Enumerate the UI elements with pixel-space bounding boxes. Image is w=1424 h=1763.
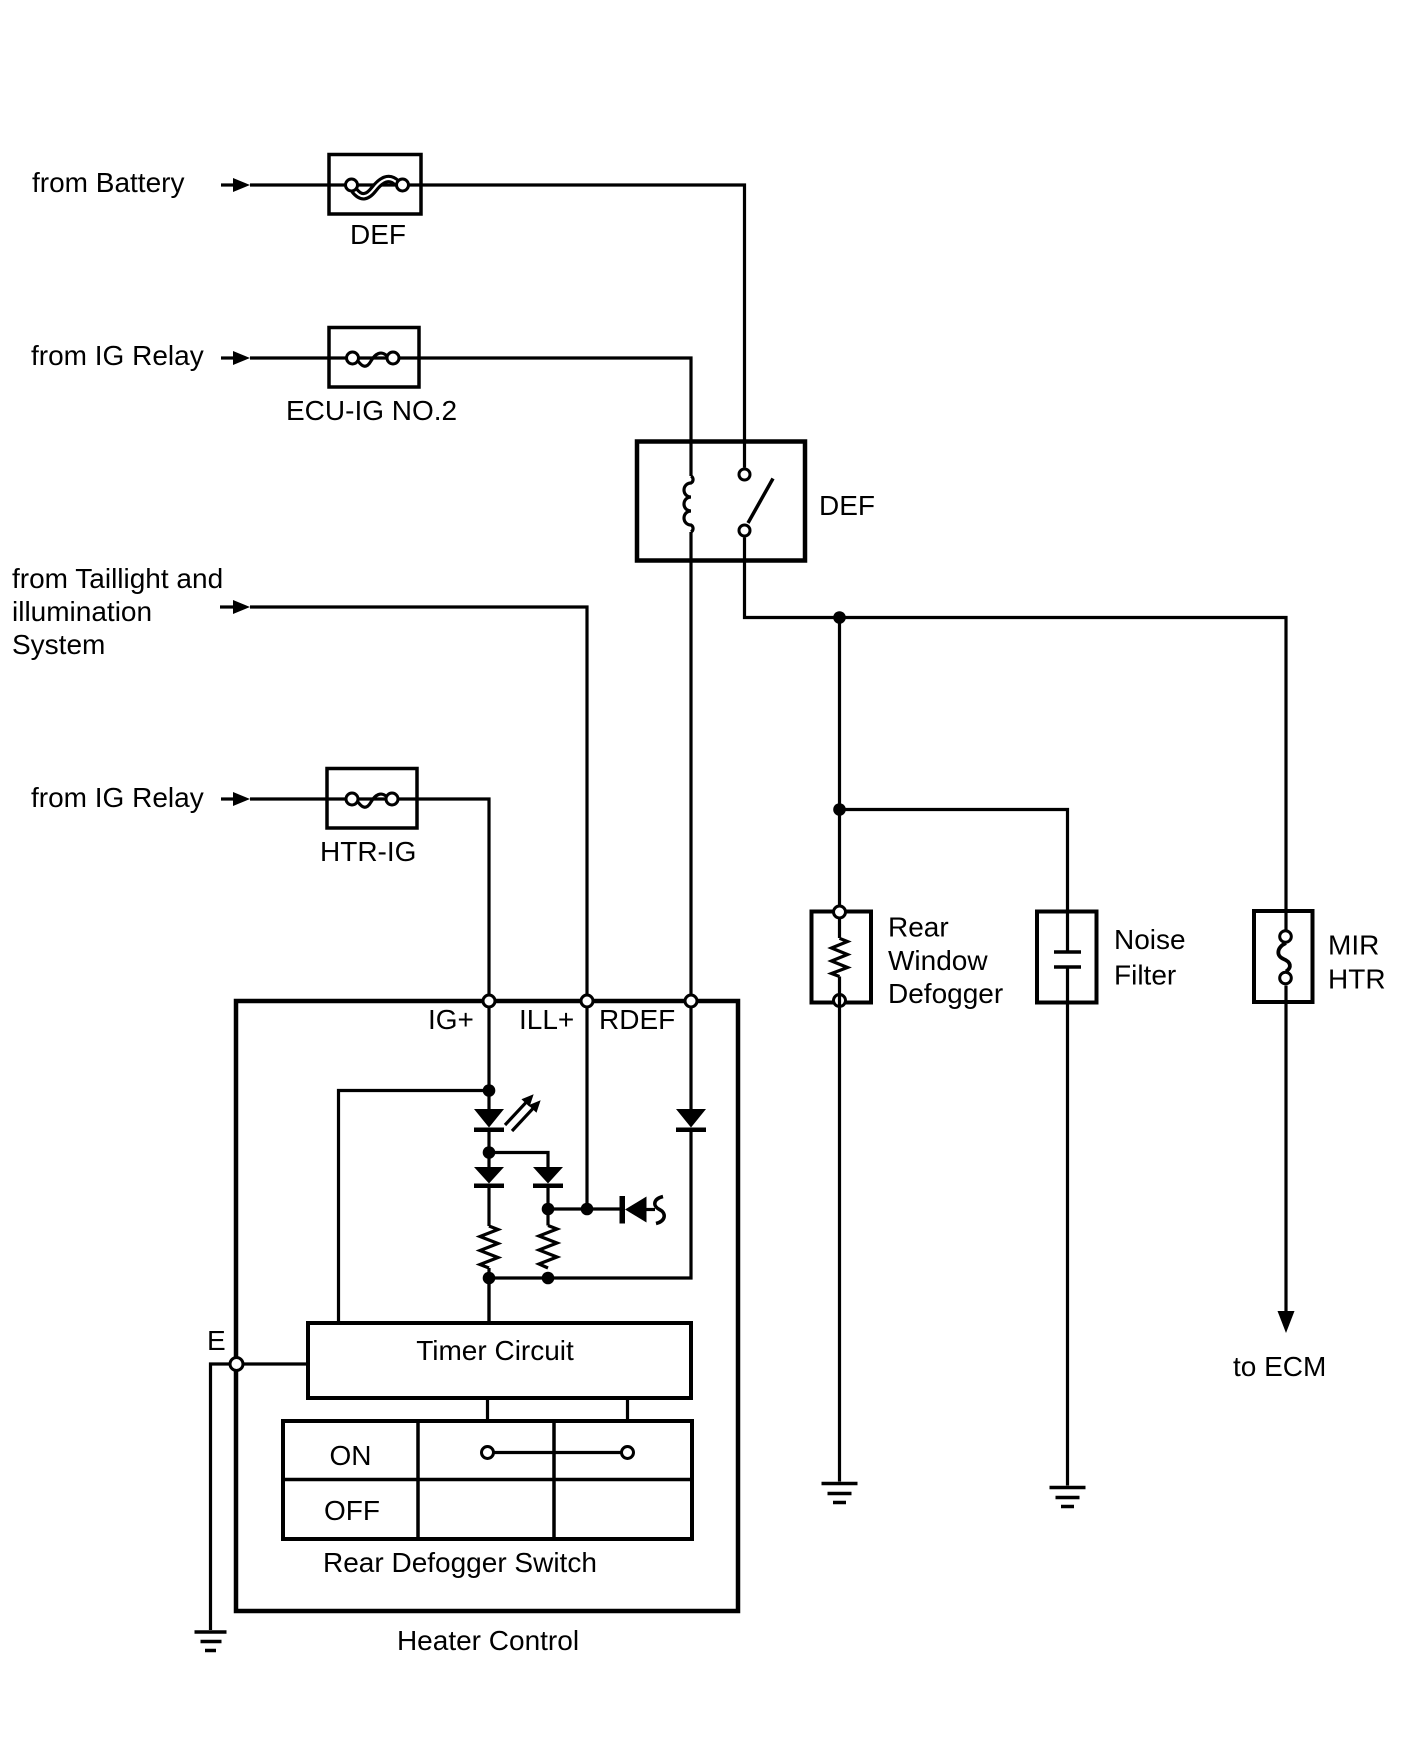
- svg-text:from Battery: from Battery: [32, 167, 184, 198]
- ground rear window defogger: [822, 1484, 858, 1503]
- MIR HTR fuse element: [1278, 943, 1290, 972]
- terminal IG+: [483, 995, 495, 1007]
- resistor left: [480, 1226, 498, 1268]
- svg-text:Defogger: Defogger: [888, 978, 1003, 1009]
- wire to noise filter: [840, 810, 1068, 951]
- svg-text:from Taillight and: from Taillight and: [12, 563, 223, 594]
- terminal ILL+: [581, 995, 593, 1007]
- MIR HTR terminal top: [1280, 931, 1292, 943]
- wire right diode junction to resistor: [546, 1209, 549, 1226]
- node ILL+ junction: [581, 1203, 594, 1216]
- arrow taillight input: [220, 600, 250, 614]
- capacitor plates: [1054, 952, 1081, 967]
- arrow to ECM: [1278, 1311, 1295, 1333]
- wire noise filter to ground: [1066, 967, 1069, 1486]
- wire bottom net: [489, 1132, 691, 1324]
- zener diode: [620, 1196, 665, 1224]
- svg-text:Timer Circuit: Timer Circuit: [416, 1335, 574, 1366]
- wire junction down to rear window defogger: [838, 618, 841, 939]
- node IG+ junction: [483, 1084, 496, 1097]
- svg-text:HTR: HTR: [1328, 964, 1386, 995]
- wire branch to right diode: [489, 1153, 548, 1168]
- wire relay output to MIR HTR branch: [745, 538, 1287, 930]
- wire timer to switch left: [486, 1398, 489, 1421]
- label MIR HTR: [1328, 930, 1386, 995]
- wire right diode to zener net: [546, 1188, 549, 1209]
- svg-text:OFF: OFF: [324, 1495, 380, 1526]
- rear window defogger terminal bottom: [834, 995, 846, 1007]
- LED light arrow 1: [501, 1091, 538, 1129]
- svg-text:RDEF: RDEF: [599, 1004, 675, 1035]
- relay DEF box: [637, 442, 805, 561]
- svg-text:MIR: MIR: [1328, 930, 1379, 961]
- diode RDEF: [676, 1109, 706, 1132]
- terminal E: [230, 1358, 243, 1371]
- rear window defogger terminal top: [834, 906, 846, 918]
- wire ECU-IG feed to relay coil and RDEF: [250, 358, 691, 476]
- svg-text:Filter: Filter: [1114, 960, 1176, 991]
- fuse ECU-IG NO.2: [329, 328, 419, 388]
- wire rear window defogger to ground: [838, 977, 841, 1482]
- rear defogger switch table: [283, 1421, 692, 1539]
- arrow IG Relay input 2: [221, 792, 250, 806]
- wire IG+ internal branch to timer: [339, 1091, 490, 1324]
- resistor right: [539, 1226, 557, 1269]
- switch ON contact right: [622, 1447, 634, 1459]
- svg-text:from IG Relay: from IG Relay: [31, 340, 204, 371]
- svg-text:IG+: IG+: [428, 1004, 474, 1035]
- svg-text:System: System: [12, 629, 105, 660]
- label from Taillight and illumination System: [12, 563, 223, 660]
- noise filter box: [1037, 912, 1097, 1003]
- timer circuit box: [308, 1323, 691, 1398]
- arrow from IG Relay input: [221, 351, 250, 365]
- rear window defogger resistor: [832, 938, 848, 976]
- svg-text:ECU-IG NO.2: ECU-IG NO.2: [286, 395, 457, 426]
- node junction relay output: [833, 611, 846, 624]
- relay switch contact top: [739, 469, 750, 480]
- wire E terminal stub and ground run: [211, 1364, 309, 1630]
- node bottom net right: [542, 1272, 555, 1285]
- svg-text:Heater Control: Heater Control: [397, 1625, 579, 1656]
- svg-text:ILL+: ILL+: [519, 1004, 574, 1035]
- svg-text:E: E: [207, 1325, 226, 1356]
- fuse DEF: [329, 155, 421, 215]
- LED indicator diode: [474, 1109, 504, 1132]
- arrow from Battery input: [221, 178, 250, 192]
- wire left diode to resistor: [487, 1188, 490, 1226]
- switch ON contact wire: [488, 1451, 628, 1454]
- wire taillight feed to ILL+: [250, 607, 587, 1209]
- ground heater control: [195, 1632, 227, 1651]
- wire HTR-IG feed to IG+: [250, 799, 489, 1091]
- svg-text:ON: ON: [330, 1440, 372, 1471]
- relay switch arm: [748, 479, 773, 524]
- MIR HTR terminal bottom: [1280, 972, 1292, 984]
- relay coil: [684, 476, 693, 532]
- svg-text:HTR-IG: HTR-IG: [320, 836, 416, 867]
- node bottom net left: [483, 1272, 496, 1285]
- LED light arrow 2: [508, 1097, 545, 1135]
- switch ON contact left: [482, 1447, 494, 1459]
- svg-text:to ECM: to ECM: [1233, 1351, 1326, 1382]
- relay switch contact bottom: [739, 525, 750, 536]
- diode left: [474, 1167, 504, 1188]
- wire timer to switch right: [626, 1398, 629, 1421]
- label Rear Window Defogger: [888, 912, 1003, 1010]
- wire battery feed to relay switch: [250, 185, 745, 468]
- svg-text:illumination: illumination: [12, 596, 152, 627]
- wire left resistor to bottom net: [487, 1268, 490, 1323]
- node junction noise filter branch: [833, 803, 846, 816]
- svg-text:from IG Relay: from IG Relay: [31, 782, 204, 813]
- svg-text:Rear Defogger Switch: Rear Defogger Switch: [323, 1547, 597, 1578]
- label Noise Filter: [1114, 924, 1186, 991]
- ground noise filter: [1050, 1488, 1086, 1507]
- svg-text:Noise: Noise: [1114, 924, 1186, 955]
- node right diode junction: [542, 1203, 555, 1216]
- svg-text:DEF: DEF: [819, 490, 875, 521]
- diode right: [533, 1167, 563, 1188]
- node diode branch junction: [483, 1146, 496, 1159]
- fuse HTR-IG: [327, 769, 417, 829]
- svg-text:DEF: DEF: [350, 219, 406, 250]
- wire MIR HTR to ECM: [1284, 986, 1287, 1314]
- rear window defogger box: [812, 912, 872, 1003]
- wire LED cathode to diodes: [487, 1132, 490, 1167]
- svg-text:Rear: Rear: [888, 912, 949, 943]
- terminal RDEF: [685, 995, 697, 1007]
- heater control box: [236, 1001, 738, 1611]
- MIR HTR box: [1254, 911, 1313, 1002]
- svg-text:Window: Window: [888, 945, 988, 976]
- wire zener net horizontal: [548, 1207, 620, 1210]
- wire IG+ down through LED chain: [487, 1091, 490, 1110]
